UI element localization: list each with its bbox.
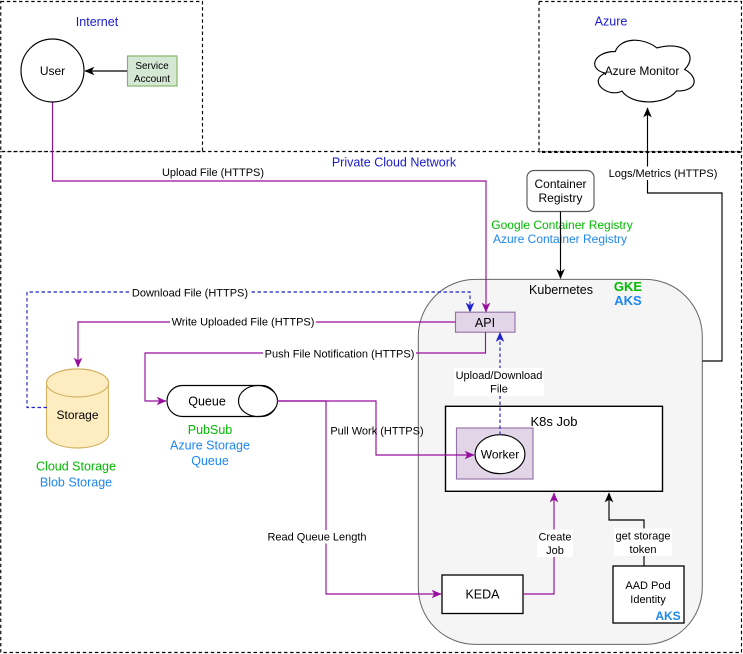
- svg-text:Azure Monitor: Azure Monitor: [605, 64, 680, 78]
- svg-text:PubSub: PubSub: [188, 423, 233, 437]
- svg-text:token: token: [630, 544, 657, 556]
- svg-text:Read Queue Length: Read Queue Length: [267, 532, 366, 544]
- svg-text:Download File (HTTPS): Download File (HTTPS): [132, 288, 248, 300]
- svg-text:KEDA: KEDA: [465, 588, 500, 602]
- svg-text:Queue: Queue: [191, 454, 229, 468]
- svg-text:Container: Container: [534, 177, 586, 191]
- svg-text:Queue: Queue: [188, 395, 226, 409]
- svg-text:AKS: AKS: [655, 609, 680, 623]
- svg-text:Logs/Metrics (HTTPS): Logs/Metrics (HTTPS): [609, 168, 718, 180]
- svg-text:Push File Notification (HTTPS): Push File Notification (HTTPS): [265, 349, 415, 361]
- svg-text:Upload File (HTTPS): Upload File (HTTPS): [162, 167, 264, 179]
- svg-text:Kubernetes: Kubernetes: [529, 283, 593, 297]
- svg-text:API: API: [475, 316, 495, 330]
- svg-text:Identity: Identity: [630, 594, 666, 606]
- svg-text:AKS: AKS: [614, 293, 642, 308]
- svg-text:get storage: get storage: [615, 531, 670, 543]
- svg-text:Google Container Registry: Google Container Registry: [491, 218, 632, 232]
- svg-text:Azure Storage: Azure Storage: [170, 439, 250, 453]
- svg-text:Create: Create: [538, 532, 571, 544]
- svg-text:Storage: Storage: [56, 408, 98, 422]
- svg-text:Internet: Internet: [76, 15, 119, 29]
- svg-text:File: File: [490, 384, 508, 396]
- svg-text:Private Cloud Network: Private Cloud Network: [332, 156, 457, 170]
- svg-text:Pull Work (HTTPS): Pull Work (HTTPS): [330, 426, 423, 438]
- svg-text:Azure: Azure: [595, 15, 628, 29]
- svg-text:Worker: Worker: [481, 448, 519, 462]
- svg-text:K8s Job: K8s Job: [531, 414, 578, 429]
- svg-text:Blob Storage: Blob Storage: [40, 476, 112, 490]
- svg-text:Upload/Download: Upload/Download: [456, 370, 543, 382]
- svg-text:AAD Pod: AAD Pod: [625, 580, 670, 592]
- svg-text:GKE: GKE: [614, 279, 643, 294]
- svg-text:Registry: Registry: [538, 191, 582, 205]
- svg-text:User: User: [40, 64, 65, 78]
- svg-text:Cloud Storage: Cloud Storage: [36, 460, 116, 474]
- svg-text:Write Uploaded File (HTTPS): Write Uploaded File (HTTPS): [172, 317, 315, 329]
- svg-text:Job: Job: [546, 545, 564, 557]
- svg-text:Account: Account: [134, 74, 170, 85]
- svg-text:Service: Service: [135, 61, 169, 72]
